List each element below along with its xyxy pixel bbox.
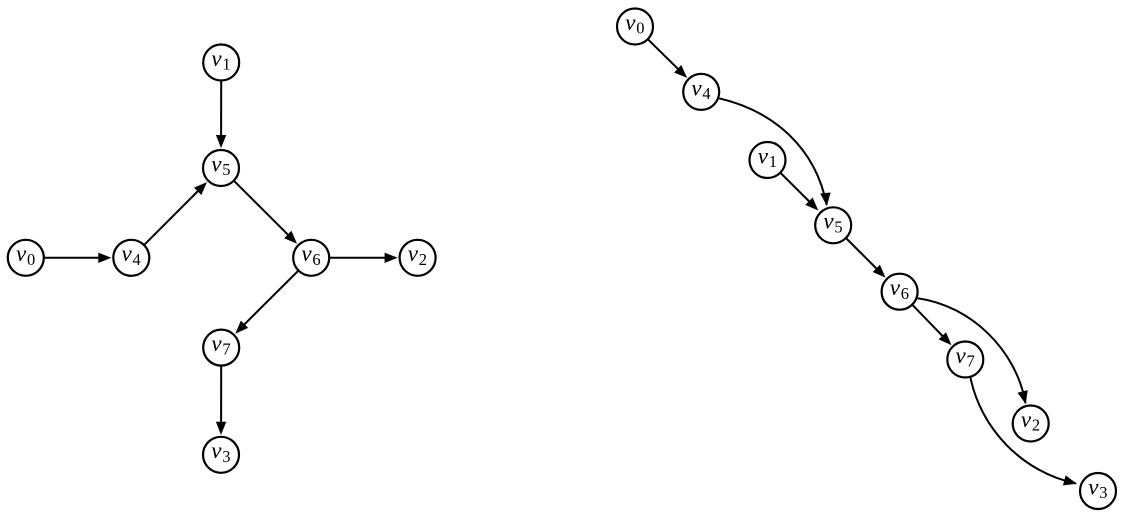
svg-text:3: 3 <box>1099 483 1107 502</box>
svg-text:v: v <box>211 151 222 176</box>
node R_v2 <box>1013 406 1049 442</box>
svg-text:v: v <box>211 46 222 71</box>
node R_v1 <box>750 142 786 178</box>
svg-text:5: 5 <box>222 160 230 179</box>
wire edge L:v4->v5 <box>144 183 206 245</box>
wire edge R:v6->v2 <box>918 298 1028 403</box>
svg-text:v: v <box>956 343 967 368</box>
node R_v3 <box>1080 473 1116 509</box>
svg-text:0: 0 <box>27 250 35 269</box>
node R_v7 <box>947 342 983 378</box>
svg-text:v: v <box>823 209 834 234</box>
svg-text:v: v <box>691 75 702 100</box>
svg-text:v: v <box>16 241 27 266</box>
svg-text:v: v <box>408 241 419 266</box>
svg-text:6: 6 <box>901 284 909 303</box>
wire edge R:v5->v6 <box>846 238 885 277</box>
node L_v2 <box>400 240 436 276</box>
node R_v5 <box>815 207 851 243</box>
node L_v4 <box>113 240 149 276</box>
svg-text:v: v <box>1021 407 1032 432</box>
wire edge R:v1->v5 <box>780 173 817 210</box>
wire edge L:v0->v4 <box>44 253 111 262</box>
wire edge R:v7->v3 <box>970 376 1076 485</box>
svg-text:1: 1 <box>222 55 230 74</box>
svg-text:v: v <box>301 241 312 266</box>
node R_v4 <box>683 74 719 110</box>
svg-text:v: v <box>625 10 636 35</box>
wire edge R:v4->v5 <box>719 98 830 204</box>
node L_v0 <box>8 240 44 276</box>
svg-text:7: 7 <box>222 340 230 359</box>
node L_v6 <box>293 240 329 276</box>
wire edge L:v6->v2 <box>329 253 396 262</box>
wire edge R:v0->v4 <box>648 39 687 77</box>
svg-text:v: v <box>1088 474 1099 499</box>
svg-text:3: 3 <box>222 447 230 466</box>
svg-text:v: v <box>122 241 133 266</box>
wire edge L:v5->v6 <box>234 181 296 243</box>
node R_v0 <box>617 9 653 45</box>
wire edge L:v7->v3 <box>217 366 226 434</box>
svg-text:2: 2 <box>1032 416 1040 435</box>
svg-text:0: 0 <box>636 19 644 38</box>
svg-text:v: v <box>890 275 901 300</box>
node L_v5 <box>203 150 239 186</box>
wire edge R:v6->v7 <box>912 305 951 345</box>
svg-text:4: 4 <box>133 250 141 269</box>
svg-text:v: v <box>211 331 222 356</box>
node L_v7 <box>203 330 239 366</box>
node R_v6 <box>882 274 918 310</box>
svg-text:v: v <box>211 438 222 463</box>
wire edge L:v1->v5 <box>217 81 226 148</box>
svg-text:4: 4 <box>702 84 710 103</box>
svg-text:2: 2 <box>419 250 427 269</box>
svg-text:5: 5 <box>834 217 842 236</box>
node L_v1 <box>203 45 239 81</box>
svg-text:1: 1 <box>769 152 777 171</box>
svg-text:7: 7 <box>967 352 975 371</box>
wire edge L:v6->v7 <box>236 271 298 333</box>
node L_v3 <box>203 437 239 473</box>
svg-text:v: v <box>758 143 769 168</box>
svg-text:6: 6 <box>312 250 320 269</box>
